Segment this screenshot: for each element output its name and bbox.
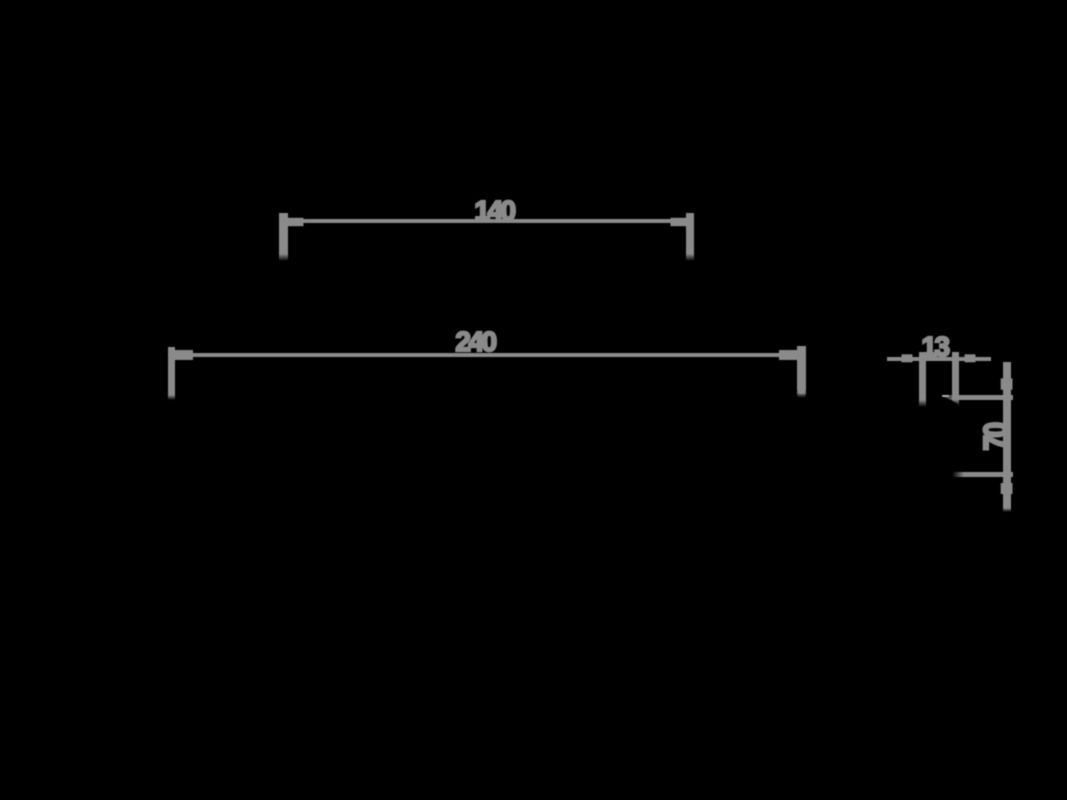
dimension 140: right extension bar [686,213,694,254]
dimension 140: left extension bar fade tail [279,254,288,261]
detail dimension 13: value label "13" [905,333,965,361]
dimension 140: left extension bar [279,213,288,254]
detail dimension 70: rotated value label "70" [980,408,1012,468]
dimension 240: value label "240" [435,328,515,356]
detail dimension 70: vertical line bottom fade [1003,508,1011,512]
dimension 140: right extension bar fade tail [686,254,694,261]
dimension 140: dimension line [288,219,686,223]
dimension 240: right extension bar [797,346,806,394]
detail dimension 70: bottom extension line [952,472,1013,477]
detail dimension 13: right extension tick [952,352,959,399]
detail dimension 13: left extension tick [919,352,926,400]
dimension 240: right extension bar fade tail [797,392,806,398]
detail dimension 70: light wedge at top extension tip [942,395,949,398]
detail dimension 13: left tick fade tail [919,400,926,407]
detail dimension 13: right tick fade tail [952,399,959,407]
detail dimension 70: top extension line [942,395,1013,400]
dimension 140: value label "140" [454,197,534,225]
dimension 240: left extension bar fade tail [168,395,175,400]
detail dimension 70: vertical dimension line [1003,362,1011,508]
dimension 240: left extension bar [168,347,175,395]
dimension 240: dimension line [175,353,797,357]
detail dimension 13: dimension line [887,357,991,361]
